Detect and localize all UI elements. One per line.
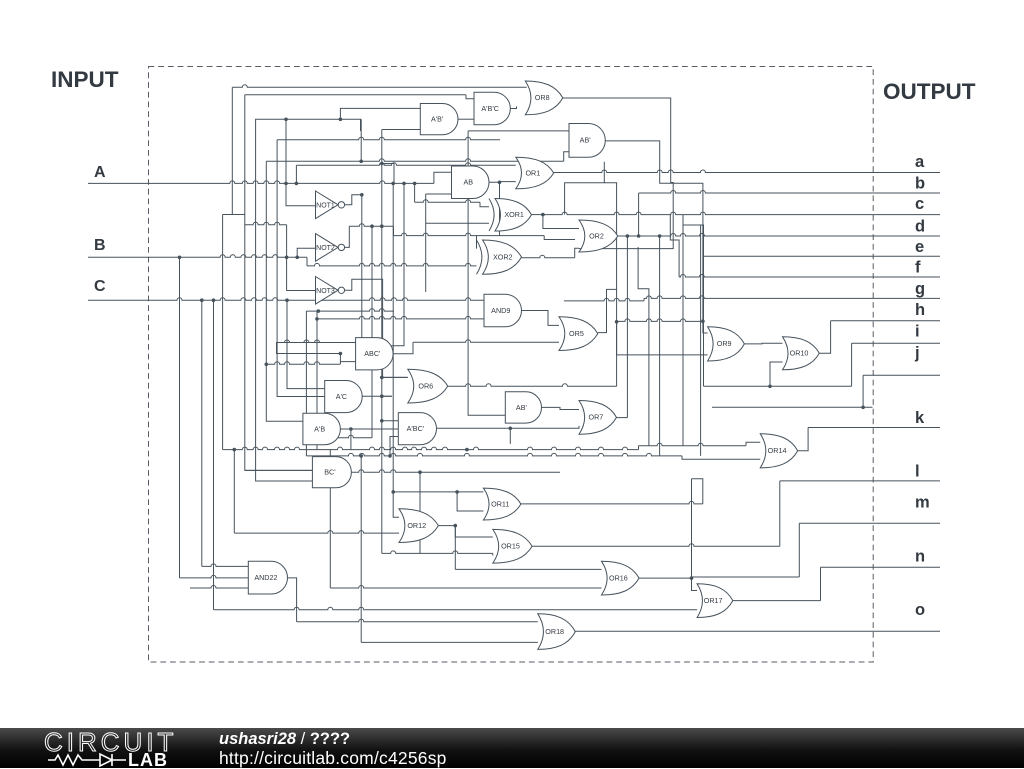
wire output c from XOR1 node — [543, 212, 940, 215]
wire OR16 upper feed — [455, 568, 601, 570]
footer url text — [219, 748, 447, 769]
svg-text:A: A — [94, 164, 106, 181]
wire OR16 output — [639, 577, 692, 579]
wire output g left part — [564, 298, 644, 301]
wire NOT1 output — [344, 195, 361, 205]
wire output j — [863, 374, 940, 376]
wire OR6 output row — [448, 384, 617, 386]
wire riser output l — [779, 481, 781, 546]
svg-text:ABC': ABC' — [364, 349, 381, 358]
svg-text:AND9: AND9 — [491, 306, 510, 315]
wire col 317 — [316, 311, 318, 450]
node B tap NOT2 — [295, 255, 299, 259]
logo resistor-diode symbol — [48, 754, 126, 766]
junction col 234 — [233, 448, 237, 452]
junction OR9 col — [701, 319, 705, 323]
node C tap AND22b — [212, 298, 216, 302]
wire row 87 to OR8 upper — [232, 85, 526, 88]
svg-text:OR17: OR17 — [704, 596, 723, 605]
svg-text:AB': AB' — [580, 136, 592, 145]
wire B tap to NOT2 input — [297, 248, 315, 257]
junction col 382 branch — [380, 376, 384, 380]
wire riser output m — [798, 523, 800, 577]
OR gate OR12 — [399, 509, 438, 543]
AND gate AB' top — [569, 124, 605, 158]
svg-text:j: j — [914, 344, 920, 362]
wire bus col 232 — [231, 87, 233, 214]
wire col 382 down to OR6 upper — [382, 226, 408, 377]
wire row 236 — [394, 233, 545, 236]
wire XOR2 out — [521, 255, 574, 258]
wire staircase col 604 — [565, 162, 605, 215]
wire col 415 from A — [414, 183, 416, 202]
wire col 426 down — [425, 194, 427, 292]
wire OR9 out to OR10 upper — [744, 342, 782, 345]
wire into OR17 upper — [692, 578, 698, 590]
wire row 95 to A'B'C — [245, 94, 466, 96]
wire col 700 — [700, 225, 702, 456]
wire drop to row 443 — [509, 428, 511, 444]
wire col 286 down to B — [286, 225, 288, 258]
wire OR17 out to n riser — [733, 600, 821, 602]
wire bus col 255 to BC' lower — [256, 119, 362, 481]
wire g jog — [643, 298, 645, 301]
junction row 161 — [359, 160, 363, 164]
wire j feed row — [712, 406, 873, 408]
node A tap col405 — [402, 182, 406, 186]
junction A'BC' upper feed — [380, 419, 384, 423]
junction row 449 — [465, 448, 469, 452]
AND gate BC' — [312, 457, 351, 488]
wire XOR1 out to OR2 upper — [543, 215, 579, 229]
wire A'BC' out to OR7 lower — [437, 426, 580, 428]
junction OR11 feed — [455, 490, 459, 494]
wire into A'BC' upper input — [382, 420, 399, 422]
wire row 319 to AND9 lower — [317, 316, 484, 319]
wire AND9 out to OR5 upper — [522, 311, 560, 326]
wire A'C output — [362, 395, 392, 397]
wire riser output n — [820, 567, 822, 600]
AND gate A'B — [303, 413, 341, 444]
svg-text:C: C — [94, 278, 106, 295]
wire row 577 to m riser — [692, 576, 800, 578]
svg-text:OUTPUT: OUTPUT — [883, 79, 976, 104]
wire row 446 — [639, 443, 747, 446]
AND gate AND9 — [484, 294, 522, 327]
svg-text:A'BC': A'BC' — [407, 424, 425, 433]
OR gate OR16 — [602, 561, 640, 595]
wire riser output b — [638, 193, 640, 236]
AND gate ABC' — [356, 338, 394, 370]
junction col 420 tap — [418, 470, 422, 474]
wire OR12 out to OR15 upper — [438, 526, 492, 537]
junction row 386 — [768, 385, 772, 389]
junction A'B' feed — [339, 118, 343, 122]
wire into OR9 lower input — [617, 322, 708, 355]
OR gate OR8 — [525, 81, 563, 115]
node A tap col394 — [391, 182, 395, 186]
svg-text:A'B'C: A'B'C — [481, 104, 499, 113]
wire riser output e — [683, 215, 704, 257]
wire BC' output row — [351, 470, 560, 473]
junction row h inner — [615, 320, 619, 324]
wire row 202 to XOR1 upper — [415, 200, 480, 203]
wire col 234 down — [233, 450, 235, 533]
junction col 382 jog — [380, 162, 384, 166]
node B tap AND22 — [178, 255, 182, 259]
wire output b — [639, 191, 940, 193]
junction OR16 out — [690, 576, 694, 580]
node A tap NOT1 — [284, 182, 288, 186]
svg-text:NOT1: NOT1 — [316, 202, 335, 209]
wire into A'B' lower input — [382, 129, 421, 131]
wire stub down — [360, 119, 362, 131]
wire col 361 stub — [360, 119, 362, 161]
OR gate OR11 — [483, 488, 521, 520]
wire jog down — [393, 226, 395, 235]
wire jog into OR14 upper — [746, 442, 760, 446]
wire jog row 214 — [223, 214, 245, 216]
wire OR14 out riser to k — [798, 428, 808, 451]
NOT gate NOT3 — [316, 277, 339, 305]
junction col 627 on d — [626, 234, 630, 238]
junction A'BC' jog — [388, 454, 392, 458]
wire stub — [492, 553, 494, 555]
wire col 691 — [691, 479, 693, 578]
wire bus col 244 to BC' upper — [245, 95, 313, 471]
wire stub — [339, 362, 341, 365]
svg-text:d: d — [915, 218, 925, 236]
wire into AB' upper input — [468, 130, 569, 132]
svg-text:OR18: OR18 — [545, 627, 564, 636]
wire col 382 down across A — [381, 130, 383, 227]
wire col 616 down to OR6 out — [604, 183, 616, 386]
wire AND22 mid input row — [180, 575, 249, 578]
wire C tap to A'C upper — [287, 300, 325, 388]
svg-text:A'C: A'C — [336, 392, 347, 401]
wire AND22 output jog — [288, 578, 297, 622]
svg-text:OR11: OR11 — [491, 499, 509, 508]
svg-text:l: l — [915, 463, 920, 481]
svg-text:A'B: A'B — [314, 424, 325, 433]
wire col 361 down to OR18 lower — [360, 456, 362, 643]
svg-text:OR10: OR10 — [790, 349, 809, 358]
wire row 553 into OR15 lower — [382, 551, 493, 554]
wire C down to AND22 top row — [202, 564, 249, 567]
svg-text:OR16: OR16 — [609, 573, 628, 582]
svg-text:OR14: OR14 — [768, 446, 787, 455]
wire col 499 down to row 236 — [499, 182, 501, 235]
wire OR7 output — [617, 417, 628, 419]
junction col 361 top — [359, 454, 363, 458]
svg-text:OR2: OR2 — [589, 231, 604, 240]
NOT gate NOT1 — [316, 191, 339, 219]
AND gate A'BC' — [398, 413, 436, 445]
OR gate OR7 — [579, 401, 617, 435]
wire col 382 long down — [381, 396, 383, 553]
wire output m — [799, 522, 940, 524]
junction col 266 — [265, 362, 269, 366]
svg-text:OR12: OR12 — [407, 521, 426, 530]
wire row 140 — [277, 137, 500, 140]
wire AND22 low input row — [190, 586, 248, 589]
junction col 394 end — [391, 490, 395, 494]
OR gate OR14 — [760, 434, 798, 468]
node C tap A'C — [285, 298, 289, 302]
wire col 683 — [682, 215, 684, 446]
AND gate A'B' — [420, 104, 458, 135]
wire bus col 266 to A'B upper — [266, 161, 303, 421]
wire A'B out to A'BC' mid — [351, 428, 398, 430]
footer author text — [219, 730, 350, 749]
svg-text:k: k — [915, 409, 925, 427]
junction b riser on d — [637, 234, 641, 238]
svg-text:n: n — [915, 547, 925, 565]
svg-text:f: f — [915, 259, 921, 277]
wire col 627 OR7 riser — [626, 236, 628, 418]
OR gate OR6 — [408, 369, 448, 403]
CircuitLab logo — [38, 728, 248, 768]
AND gate AB' mid — [505, 392, 541, 423]
wire jog col 382 to A line — [382, 164, 394, 184]
XOR gate XOR1 — [495, 199, 532, 232]
wire row 161 to AB' lower — [266, 159, 563, 161]
wire OR17 lower feed — [214, 607, 698, 610]
wire A'B branch down to row 449 — [350, 429, 352, 450]
svg-text:NOT2: NOT2 — [316, 245, 335, 252]
dashed schematic border — [149, 67, 874, 663]
svg-text:m: m — [915, 494, 930, 512]
wire row 236 jog to OR2 — [544, 236, 575, 240]
wire jog into OR14 lower — [682, 456, 760, 459]
wire row 470 into BC' upper — [245, 469, 313, 471]
svg-text:B: B — [94, 237, 106, 254]
wire branch to A'C node — [382, 377, 392, 396]
wire row 456 long — [306, 453, 682, 456]
svg-text:i: i — [915, 322, 920, 340]
junction row 311 — [317, 309, 321, 313]
wire col 455 down — [454, 526, 456, 570]
node A tap riser — [295, 182, 299, 186]
wire riser output i — [851, 343, 853, 386]
wire NOT1 net to ABC' — [277, 195, 362, 362]
OR gate OR5 — [559, 317, 598, 351]
svg-text:BC': BC' — [324, 468, 336, 477]
wire row 492 into OR11 upper — [393, 491, 483, 493]
wire input A — [88, 181, 434, 184]
svg-text:XOR1: XOR1 — [504, 210, 524, 219]
wire ABC' out jog — [393, 342, 413, 353]
wire AB'2 out to OR7 upper — [542, 407, 580, 409]
wire output o from OR18 — [575, 630, 940, 632]
wire B tap to NOT3 input — [287, 257, 316, 290]
wire OR18 lower input row — [361, 641, 538, 643]
wire input C to AND9 upper — [88, 298, 484, 301]
wire col 222 down — [222, 215, 224, 450]
wire into AND AB lower input — [426, 193, 452, 195]
wire i feed row — [704, 385, 852, 387]
OR gate OR1 — [516, 157, 554, 189]
wire row 224 jog — [245, 222, 287, 225]
wire OR15 out run — [532, 544, 780, 547]
wire row 311 — [306, 309, 394, 312]
svg-text:OR8: OR8 — [535, 93, 550, 102]
svg-text:AB: AB — [463, 178, 473, 187]
wire into OR11 lower — [457, 492, 483, 511]
junction OR12 out — [454, 524, 458, 528]
wire col 420 down to OR15 row — [419, 472, 421, 553]
junction col 659 on d — [658, 234, 662, 238]
wire riser into A'B' upper input — [340, 108, 420, 119]
wire into OR9 upper input — [703, 321, 708, 333]
wire AB' out down to OR9 col — [605, 141, 703, 321]
wire row 165 to OR1 upper — [296, 163, 515, 166]
junction A'BC' net — [509, 427, 513, 431]
XOR gate XOR2 — [483, 240, 522, 274]
svg-text:OR9: OR9 — [717, 339, 732, 348]
svg-text:OR15: OR15 — [501, 542, 520, 551]
wire output n — [821, 566, 941, 568]
svg-text:a: a — [915, 153, 925, 171]
OR gate OR2 — [579, 220, 618, 252]
wire NOT3 output to OR6 upper — [344, 279, 407, 377]
OR gate OR17 — [697, 584, 733, 618]
wire col 372 down — [371, 226, 373, 438]
wire OR8 out down to OR2 lower — [563, 98, 673, 249]
wire riser output f — [670, 215, 679, 277]
OR gate OR10 — [783, 337, 820, 370]
wire output k — [808, 427, 940, 429]
wire col 703 — [703, 256, 705, 386]
wire long row 449 — [223, 447, 639, 449]
svg-text:h: h — [915, 301, 925, 319]
wire col 306 down — [305, 311, 307, 456]
wire A step into AND AB upper — [434, 172, 452, 183]
svg-text:g: g — [915, 280, 925, 298]
wire col 659 — [659, 236, 661, 456]
junction XOR1 out — [541, 213, 545, 217]
wire into A'BC' lower input — [390, 437, 398, 456]
junction col 382 row 226 — [380, 224, 384, 228]
svg-text:OR5: OR5 — [569, 329, 584, 338]
OR gate OR18 — [538, 614, 576, 650]
wire col 330 down — [329, 450, 331, 588]
wire row 364 into ABC' lower — [266, 362, 340, 365]
wire col 202 down — [201, 300, 203, 566]
svg-text:A'B': A'B' — [431, 114, 444, 123]
wire row 438 into A'B lower — [303, 435, 372, 438]
junction col 317 — [315, 317, 319, 321]
wire row 342 — [277, 340, 362, 343]
wire NOT2 out riser — [344, 226, 349, 247]
svg-text:AND22: AND22 — [254, 573, 277, 582]
wire jog up — [638, 446, 640, 450]
wire B down to AND22 mid — [179, 257, 181, 578]
wire A'B' out to A'B'C — [458, 118, 474, 120]
svg-text:XOR2: XOR2 — [493, 252, 513, 261]
wire output l — [780, 480, 940, 482]
wire into AB' lower input — [564, 152, 569, 162]
svg-text:o: o — [915, 601, 925, 619]
junction AB out — [498, 181, 502, 185]
wire output f — [679, 275, 940, 278]
wire col 405 A to ABC' upper — [356, 183, 404, 345]
wire output e — [704, 255, 941, 257]
wire OR11 out run — [521, 501, 703, 504]
svg-text:LAB: LAB — [128, 750, 168, 768]
junction j feed — [861, 406, 865, 410]
AND gate AND22 — [248, 561, 287, 594]
wire into XOR1 lower — [426, 222, 489, 224]
svg-text:OR1: OR1 — [525, 168, 540, 177]
wire output a from OR1 — [554, 170, 940, 173]
wire col 286 down to NOT1 input — [286, 119, 316, 205]
AND gate AB — [452, 166, 490, 199]
wire OR5 out riser — [598, 289, 617, 332]
wire output d from OR2 — [618, 234, 940, 237]
NOT gate NOT2 — [316, 234, 339, 262]
AND gate A'C — [325, 381, 362, 413]
OR gate OR15 — [493, 529, 532, 563]
wire into OR2 lower input — [575, 248, 579, 258]
junction col 372 — [370, 224, 374, 228]
svg-text:c: c — [915, 195, 924, 213]
svg-text:OR6: OR6 — [418, 381, 433, 390]
wire output h — [831, 320, 940, 322]
footer bar — [0, 728, 1024, 768]
junction NOT1 net — [360, 193, 364, 197]
wire col 394 to OR12 upper — [393, 492, 399, 517]
wire OR16 lower feed — [330, 586, 601, 589]
AND gate A'B'C — [474, 92, 510, 125]
wire col 213 down to OR17 feed row — [213, 300, 215, 610]
wire OR10 out riser to h — [819, 321, 830, 354]
wire input B — [88, 255, 307, 258]
wire NOT2 output row — [349, 224, 393, 226]
wire row 533 into OR12 lower — [234, 531, 399, 534]
wire jog into XOR1 upper — [480, 202, 489, 207]
junction ABC' mid input — [339, 352, 343, 356]
wire XOR1 out — [532, 214, 543, 216]
node C tap AND22a — [200, 298, 204, 302]
wire col 703 bend — [692, 479, 703, 504]
OR gate OR9 — [708, 327, 745, 361]
wire jog into A'B'C upper input — [466, 95, 474, 99]
wire output i — [852, 342, 940, 344]
wire B row to XOR2 lower — [307, 263, 477, 266]
svg-text:b: b — [915, 175, 925, 193]
svg-text:NOT3: NOT3 — [316, 288, 335, 295]
junction col 286 top — [284, 118, 288, 122]
wire output g — [644, 296, 940, 299]
wire bus col 277 to A'C lower — [277, 140, 325, 397]
wire row h inner — [617, 319, 703, 322]
svg-text:e: e — [915, 238, 924, 256]
wire into XOR2 upper input — [476, 236, 478, 249]
wire B jog — [306, 257, 308, 266]
node B tap NOT3 — [285, 255, 289, 259]
junction A'C output node — [380, 394, 384, 398]
wire A'B output — [340, 428, 351, 430]
node A tap col415 — [413, 182, 417, 186]
wire riser output j — [862, 375, 864, 407]
wire A riser — [295, 165, 297, 183]
svg-text:INPUT: INPUT — [51, 67, 119, 92]
wire col 468 down to AB' mid lower — [468, 131, 505, 415]
wire A'B'C out to OR8 — [510, 106, 516, 108]
wire AB out to OR1 lower — [489, 181, 516, 184]
wire col 394 A down to OR11 row — [392, 183, 394, 492]
